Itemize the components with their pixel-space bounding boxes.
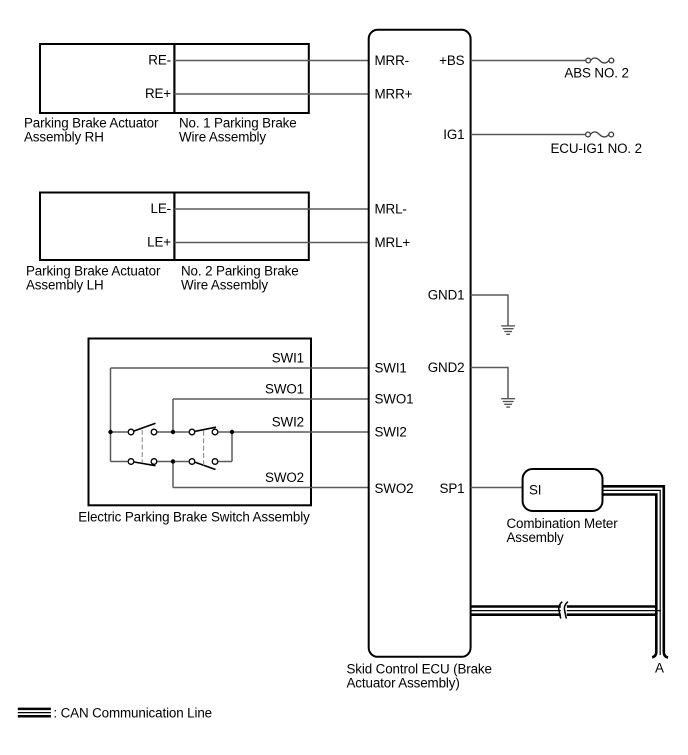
- CAN bus break mark right: [564, 602, 567, 619]
- wire SWO2 vertical rise: [172, 462, 174, 488]
- svg-text:ECU-IG1 NO. 2: ECU-IG1 NO. 2: [551, 141, 642, 156]
- svg-text:RE-: RE-: [148, 53, 171, 68]
- svg-text:SP1: SP1: [440, 481, 465, 496]
- CAN bus from SI (thin middle line): [603, 490, 661, 655]
- svg-text:No. 2 Parking Brake: No. 2 Parking Brake: [181, 264, 299, 279]
- svg-text:SWI1: SWI1: [272, 351, 304, 366]
- svg-text:SWI2: SWI2: [375, 425, 407, 440]
- wire SWO1: [173, 398, 369, 400]
- switch SW3 lower-left contacts: [128, 459, 134, 465]
- wire upper bus segment 2: [157, 431, 189, 433]
- Combination Meter Assembly box (SI): [523, 469, 603, 511]
- CAN bus from ECU (thin middle line): [471, 610, 661, 612]
- svg-text:MRL+: MRL+: [375, 235, 411, 250]
- wire GND1: [471, 295, 508, 326]
- ground symbol GND2: [501, 399, 515, 407]
- svg-text:SWO1: SWO1: [375, 392, 414, 407]
- svg-text:No. 1 Parking Brake: No. 1 Parking Brake: [179, 116, 297, 131]
- wire lower bus segment 1: [111, 461, 128, 463]
- Electric Parking Brake Switch Assembly box: [89, 339, 312, 506]
- switch SW2 lever: [195, 427, 216, 431]
- svg-text:ABS NO. 2: ABS NO. 2: [564, 66, 628, 81]
- svg-text:Assembly RH: Assembly RH: [24, 130, 104, 145]
- svg-text:SWO1: SWO1: [265, 382, 304, 397]
- No. 1 Parking Brake Wire Assembly box: [174, 44, 308, 113]
- wire SWI2 (upper bus to ECU): [218, 431, 369, 433]
- fuse ABS NO. 2: [586, 58, 614, 63]
- CAN bus break mark left: [559, 602, 562, 619]
- legend CAN symbol: [18, 709, 51, 716]
- Parking Brake Actuator Assembly LH box: [40, 193, 174, 261]
- svg-text:+BS: +BS: [439, 53, 465, 68]
- ground symbol GND1: [501, 326, 515, 334]
- wire LE+ to MRL+: [174, 242, 368, 244]
- junction dot left bus: [108, 430, 112, 434]
- svg-text:MRR+: MRR+: [375, 87, 413, 102]
- Parking Brake Actuator Assembly RH box: [40, 44, 174, 113]
- wire lower bus segment 2: [157, 461, 189, 463]
- svg-text:GND2: GND2: [428, 360, 465, 375]
- junction dot SWO2 tap: [171, 459, 175, 463]
- svg-text:SWO2: SWO2: [265, 470, 304, 485]
- CAN bus from SI (thick inner line): [603, 495, 657, 658]
- wire lower bus segment 3: [218, 461, 232, 463]
- svg-text:IG1: IG1: [443, 127, 464, 142]
- svg-text:SWI1: SWI1: [375, 361, 407, 376]
- svg-text:RE+: RE+: [145, 86, 171, 101]
- svg-text:GND1: GND1: [428, 288, 465, 303]
- svg-text:MRR-: MRR-: [375, 53, 409, 68]
- svg-text:Parking Brake Actuator: Parking Brake Actuator: [26, 264, 161, 279]
- CAN bus from ECU (thick top line): [471, 605, 658, 608]
- svg-text:Wire Assembly: Wire Assembly: [179, 130, 266, 145]
- svg-text:Skid Control ECU (Brake: Skid Control ECU (Brake: [347, 662, 492, 677]
- svg-text:Combination Meter: Combination Meter: [507, 516, 619, 531]
- Skid Control ECU box: [369, 30, 471, 657]
- switch link dashed left: [141, 430, 143, 463]
- CAN bus break gap: [561, 600, 567, 621]
- svg-text:SWO2: SWO2: [375, 481, 414, 496]
- wire RE+ to MRR+: [174, 93, 368, 95]
- svg-text:Actuator Assembly): Actuator Assembly): [347, 676, 460, 691]
- CAN bus from ECU (thick bottom line): [471, 613, 658, 616]
- svg-text:Assembly LH: Assembly LH: [26, 278, 104, 293]
- junction dot right bus: [230, 430, 234, 434]
- wire upper bus segment 1: [111, 431, 128, 433]
- junction dot SWO1 tap: [171, 430, 175, 434]
- wire SP1 to SI: [471, 487, 523, 489]
- switch SW1 lever: [134, 423, 156, 431]
- svg-text:MRL-: MRL-: [375, 202, 407, 217]
- svg-text:Wire Assembly: Wire Assembly: [181, 278, 268, 293]
- wire RE- to MRR-: [174, 60, 368, 62]
- svg-text:: CAN Communication Line: : CAN Communication Line: [53, 705, 212, 720]
- svg-text:SI: SI: [529, 483, 541, 498]
- wire SWI1: [111, 367, 369, 369]
- wire left vertical (SWI1 feed): [110, 368, 112, 462]
- wire +BS to fuse: [471, 60, 586, 62]
- wire SWO2: [173, 487, 369, 489]
- svg-text:A: A: [655, 661, 664, 676]
- switch SW2 upper-right contacts: [189, 429, 195, 435]
- svg-text:Assembly: Assembly: [507, 530, 565, 545]
- wire SWO1 vertical drop: [172, 399, 174, 432]
- wire GND2: [471, 368, 508, 399]
- wire LE- to MRL-: [174, 208, 368, 210]
- svg-text:LE+: LE+: [147, 235, 171, 250]
- svg-text:Parking Brake Actuator: Parking Brake Actuator: [24, 116, 159, 131]
- switch link dashed right: [203, 431, 205, 466]
- fuse ECU-IG1 NO. 2: [586, 132, 614, 137]
- wire right vertical: [231, 432, 233, 462]
- switch SW1 upper-left contacts: [128, 429, 134, 435]
- CAN bus from SI (thick outer line): [603, 486, 669, 657]
- No. 2 Parking Brake Wire Assembly box: [174, 193, 308, 261]
- switch SW4 lever: [195, 462, 216, 469]
- svg-text:LE-: LE-: [151, 201, 171, 216]
- svg-text:SWI2: SWI2: [272, 415, 304, 430]
- switch SW4 lower-right contacts: [189, 459, 195, 465]
- wire IG1 to fuse: [471, 134, 586, 136]
- switch SW3 lever: [134, 462, 156, 466]
- svg-text:Electric Parking Brake Switch: Electric Parking Brake Switch Assembly: [78, 510, 310, 525]
